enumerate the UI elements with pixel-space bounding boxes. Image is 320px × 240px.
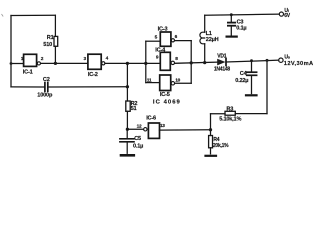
diode VD1: [217, 59, 225, 66]
ground C4: [246, 94, 257, 96]
svg-text:1N4148: 1N4148: [214, 66, 230, 72]
capacitor C5: [120, 138, 134, 140]
svg-text:C4: C4: [240, 71, 248, 77]
op-amp U1 gate IC-1 box: [24, 54, 37, 66]
wire L1 top: [204, 15, 206, 32]
resistor R3: [225, 111, 235, 115]
wire supply rail top: [205, 14, 280, 15]
gate IC-4 box: [160, 52, 170, 70]
node L1 junction: [203, 61, 206, 64]
svg-text:22µH: 22µH: [206, 37, 219, 43]
wire IC-1 input: [11, 63, 24, 65]
svg-text:13: 13: [160, 123, 165, 129]
svg-text:10: 10: [175, 77, 180, 83]
wire divider vertical: [210, 114, 212, 136]
ground C3: [227, 35, 237, 37]
ground C5: [121, 154, 134, 157]
wire C4 stem: [251, 61, 253, 71]
svg-text:VD1: VD1: [217, 54, 226, 60]
svg-text:6V: 6V: [284, 13, 291, 19]
gate IC-4 output bubble: [171, 61, 174, 64]
node C2 rail junction: [126, 85, 129, 88]
gate IC-5 output bubble: [171, 82, 174, 85]
wire IC-3 out: [175, 40, 192, 42]
resistor R1: [54, 36, 58, 46]
wire IC-6 input to divider: [160, 129, 211, 131]
wire R3 right: [235, 113, 267, 115]
svg-text:510: 510: [43, 42, 52, 48]
gate IC-6 box: [148, 123, 159, 138]
wire output tie vertical: [190, 41, 192, 84]
wire R2 to IC-6 node: [126, 111, 128, 129]
svg-text:C2: C2: [43, 77, 50, 83]
svg-text:R3: R3: [226, 106, 233, 112]
gate IC-2 box: [88, 54, 101, 69]
svg-text:20k,1%: 20k,1%: [213, 143, 229, 149]
node IC-2 output junction: [126, 62, 129, 65]
inductor L1: [200, 32, 205, 44]
wire R4 bottom: [210, 148, 212, 154]
svg-text:12V,30mA: 12V,30mA: [284, 61, 314, 67]
svg-text:R1: R1: [47, 35, 54, 41]
gate IC-3 box: [160, 32, 171, 46]
wire C2 rail left: [11, 86, 45, 88]
wire C5 stem top: [126, 129, 128, 138]
wire C2 feedback vertical: [126, 63, 128, 101]
wire R1 bottom: [54, 46, 56, 63]
terminal Ui: [279, 12, 283, 16]
node tie outputs: [190, 61, 193, 64]
wire IC-3 input: [146, 40, 161, 42]
svg-text:C5: C5: [134, 136, 141, 142]
wire R1 top: [54, 15, 56, 36]
node C3 junction: [230, 13, 233, 16]
capacitor C2: [44, 83, 46, 92]
svg-text:IC-1: IC-1: [23, 70, 33, 76]
wire output rail riser: [266, 60, 268, 113]
node R1 junction: [54, 62, 57, 65]
node divider junction: [209, 128, 212, 131]
wire IC-5 out: [175, 82, 192, 84]
svg-text:5.10k,1%: 5.10k,1%: [219, 116, 241, 122]
svg-text:12: 12: [137, 123, 142, 129]
wire IC-5 input: [146, 82, 160, 84]
wire node to IC-6 bubble: [127, 128, 143, 130]
wire L1 bottom: [204, 44, 206, 63]
wire IC-1 out to IC-2 in: [41, 62, 88, 64]
svg-text:IC-3: IC-3: [158, 26, 168, 32]
svg-text:0.22µ: 0.22µ: [235, 78, 248, 84]
capacitor C3: [228, 22, 235, 24]
terminal Uo: [279, 58, 283, 62]
svg-text:0.1µ: 0.1µ: [236, 26, 246, 32]
svg-text:11: 11: [147, 78, 152, 84]
wire gate input tie vertical: [145, 41, 147, 82]
wire diode to output terminal: [226, 60, 279, 62]
svg-text:IC-6: IC-6: [146, 116, 156, 122]
node riser junction: [266, 59, 269, 62]
gate IC-6 output bubble: [144, 128, 147, 131]
wire IC-2 out to IC-4 in: [105, 62, 160, 64]
node gate input tie: [144, 62, 147, 65]
node C4 junction: [250, 59, 253, 62]
capacitor C4: [247, 71, 257, 73]
svg-text:1000p: 1000p: [37, 92, 53, 98]
wire left vertical: [10, 16, 12, 87]
svg-text:IC 4069: IC 4069: [153, 99, 181, 105]
noise mark top-left: [2, 14, 4, 17]
wire main output rail: [175, 62, 218, 63]
svg-text:IC-5: IC-5: [160, 92, 170, 98]
svg-text:0.1µ: 0.1µ: [133, 144, 143, 150]
gate IC-3 output bubble: [171, 39, 174, 42]
svg-text:IC-2: IC-2: [88, 72, 98, 78]
wire R3 left elbow: [211, 113, 226, 115]
svg-text:51: 51: [131, 106, 137, 112]
wire C5 stem bottom: [126, 143, 128, 154]
gate IC-5 box: [160, 75, 171, 91]
wire C3 stem bottom: [230, 27, 232, 36]
resistor R2: [126, 101, 130, 111]
node IC-6 output junction: [126, 128, 129, 131]
resistor R4: [209, 136, 213, 148]
svg-text:C3: C3: [237, 19, 244, 25]
gate IC-1 output bubble: [37, 62, 40, 65]
gate IC-2 output bubble: [102, 62, 105, 65]
ground R4: [206, 155, 217, 157]
wire C4 stem bottom: [251, 76, 253, 93]
wire C2 rail right: [48, 86, 127, 88]
svg-text:IC-4: IC-4: [155, 47, 166, 53]
wire top feedback rail: [11, 14, 55, 16]
node IC-1 input: [10, 62, 13, 65]
wire C3 stem: [230, 15, 232, 22]
